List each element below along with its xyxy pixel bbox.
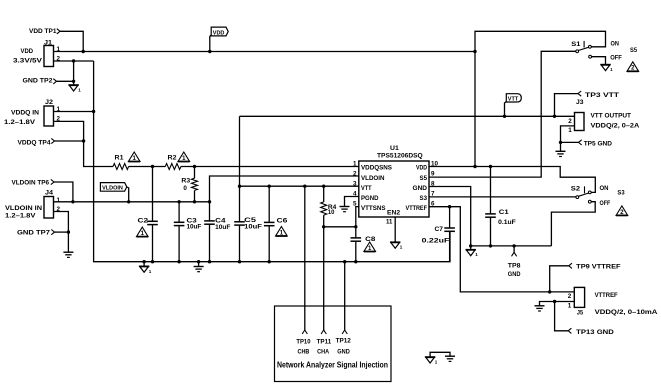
wire U1 pin5 VTTSNS bbox=[356, 207, 359, 227]
junction bus ground bbox=[142, 260, 145, 263]
junction TP13 bbox=[553, 300, 556, 303]
testpoint TP9 arrow bbox=[569, 263, 572, 268]
testpoint TP2 arrow bbox=[53, 79, 56, 84]
wire GND rail and bottom bus bbox=[94, 61, 450, 262]
wire EN2 pin 11 stub bbox=[394, 217, 396, 242]
svg-text:R3: R3 bbox=[181, 177, 190, 184]
ground bus triangle bbox=[139, 266, 152, 274]
svg-text:10: 10 bbox=[328, 209, 335, 216]
warning triangle R1 bbox=[128, 152, 140, 162]
wire C2 bottom lead bbox=[152, 225, 154, 262]
junction R4/VTT line bbox=[322, 185, 325, 188]
wire bus earth stub bbox=[198, 262, 200, 267]
junction C3/VLDOIN bbox=[177, 200, 180, 203]
wire C3 top lead bbox=[178, 202, 180, 223]
wire TP1 to VDD rail bbox=[60, 31, 83, 51]
svg-text:VTTREF: VTTREF bbox=[406, 205, 428, 212]
warning triangle S3 bbox=[616, 206, 628, 216]
junction pin6/C7 bbox=[448, 205, 451, 208]
wire TP9 bbox=[550, 266, 569, 292]
svg-text:TP11: TP11 bbox=[317, 339, 332, 346]
junction C5/VTT bbox=[238, 185, 241, 188]
junction TP3/VTT rail bbox=[553, 115, 556, 118]
svg-text:0: 0 bbox=[183, 185, 187, 192]
svg-text:VDDQSNS: VDDQSNS bbox=[361, 165, 392, 172]
junction TP12/bus bbox=[343, 260, 346, 263]
wire C5 top lead bbox=[239, 186, 241, 222]
svg-text:TP3 VTT: TP3 VTT bbox=[585, 92, 620, 99]
testpoint TP6 arrow bbox=[51, 179, 54, 184]
svg-text:GND TP7: GND TP7 bbox=[17, 229, 51, 236]
svg-text:Network Analyzer Signal Inject: Network Analyzer Signal Injection bbox=[277, 361, 388, 370]
junction TP10/VTT line bbox=[303, 185, 306, 188]
capacitor C2 bbox=[147, 221, 158, 224]
wire TP11 drop CHA bbox=[323, 227, 325, 330]
capacitor C5 bbox=[234, 222, 245, 225]
wire TP3 bbox=[555, 94, 579, 117]
testpoint TP13 arrow bbox=[568, 328, 571, 333]
svg-text:CHA: CHA bbox=[317, 348, 329, 355]
svg-text:C7: C7 bbox=[435, 226, 444, 233]
wire U1 pin10 VDD to S2 ON bbox=[429, 167, 595, 193]
svg-text:VDDQ IN: VDDQ IN bbox=[11, 110, 39, 117]
junction VLDOIN flag bbox=[127, 200, 130, 203]
svg-text:S3: S3 bbox=[420, 195, 428, 202]
svg-text:VTTREF: VTTREF bbox=[595, 292, 618, 299]
testpoint TP4 arrow bbox=[51, 138, 54, 143]
svg-text:C6: C6 bbox=[277, 218, 289, 225]
net label VTT bbox=[506, 94, 521, 103]
wire TP13 bbox=[555, 302, 569, 331]
wire VLDOIN J4.1 bbox=[54, 201, 210, 203]
svg-text:TP13 GND: TP13 GND bbox=[576, 329, 614, 336]
switch S1 OFF contact bbox=[589, 55, 592, 58]
wire TP2 bbox=[57, 80, 74, 82]
ground bus earth bbox=[194, 267, 204, 272]
warning triangle C2 bbox=[137, 227, 149, 237]
wire S1 actuator bbox=[583, 41, 585, 48]
svg-text:VDD: VDD bbox=[416, 165, 427, 172]
svg-text:J5: J5 bbox=[577, 310, 584, 317]
junction VTTSNS/C8 bbox=[354, 225, 357, 228]
svg-text:PGND: PGND bbox=[361, 195, 379, 202]
switch S1 pole contact bbox=[576, 50, 579, 53]
svg-text:J4: J4 bbox=[45, 190, 54, 197]
wire U1 pin8 GND drop bbox=[429, 187, 471, 246]
wire VTT riser bbox=[239, 116, 241, 186]
wire R3 bottom lead bbox=[194, 190, 196, 201]
svg-text:TP10: TP10 bbox=[296, 339, 310, 346]
svg-text:VDDQ/2, 0–2A: VDDQ/2, 0–2A bbox=[591, 123, 640, 130]
svg-text:2: 2 bbox=[353, 171, 357, 178]
wire TP4 bbox=[55, 140, 84, 142]
wire S2 actuator bbox=[584, 186, 586, 193]
net label VLDOIN bbox=[100, 183, 126, 192]
wire J4.2 to TP7 ground bbox=[54, 212, 69, 253]
wire TP7 bbox=[55, 231, 69, 233]
wire C2 top lead bbox=[152, 167, 154, 222]
junction C3/bus bbox=[177, 260, 180, 263]
wire C7 bottom lead bbox=[449, 231, 451, 261]
wire J1.2 to GND rail bbox=[54, 60, 94, 62]
wire S1 pole to U1 pin9 S5 bbox=[429, 51, 576, 177]
junction pin8/right bus bbox=[469, 244, 472, 247]
svg-text:VDDQ/2, 0–10mA: VDDQ/2, 0–10mA bbox=[595, 309, 658, 316]
testpoint TP11 arrow bbox=[321, 330, 326, 334]
svg-text:0.22uF: 0.22uF bbox=[422, 237, 450, 244]
wire TP8 stub bbox=[513, 246, 515, 252]
IC U1 TPS51206DSQ body bbox=[359, 161, 429, 217]
network analyzer box bbox=[275, 306, 392, 382]
wire J2.2 VDDQ rail bbox=[54, 121, 114, 166]
svg-text:VTTSNS: VTTSNS bbox=[361, 205, 386, 212]
connector J2 bbox=[44, 106, 54, 126]
svg-text:S2: S2 bbox=[571, 186, 581, 193]
ground tie earth bbox=[445, 356, 455, 361]
svg-text:S5: S5 bbox=[420, 175, 428, 182]
svg-text:0.1uF: 0.1uF bbox=[498, 219, 516, 226]
junction R3/VLDOIN bbox=[193, 200, 196, 203]
svg-text:10uF: 10uF bbox=[187, 224, 202, 231]
wire C3 bottom lead bbox=[178, 226, 180, 262]
wire VTTSNS link bbox=[324, 226, 356, 228]
wire C4 top lead bbox=[209, 202, 211, 221]
wire VDD rail J1.1 bbox=[54, 51, 476, 53]
testpoint TP10 arrow bbox=[302, 330, 307, 334]
capacitor C6 bbox=[264, 222, 275, 225]
wire TP2 drop bbox=[73, 61, 75, 85]
wire U1 pin4 PGND bbox=[345, 197, 359, 207]
testpoint TP8 arrow bbox=[512, 252, 517, 256]
wire C8 bottom lead bbox=[355, 241, 357, 262]
ground TP2 bbox=[68, 85, 81, 93]
wire U1 pin6 VTTREF rail bbox=[429, 207, 574, 292]
wire C5 bottom lead bbox=[239, 225, 241, 262]
svg-text:S3: S3 bbox=[617, 190, 625, 197]
connector J1 bbox=[44, 46, 54, 67]
wire VDD flag stub bbox=[210, 35, 211, 52]
svg-text:TPS51206DSQ: TPS51206DSQ bbox=[377, 153, 423, 160]
svg-text:EN2: EN2 bbox=[387, 210, 401, 217]
svg-text:C1: C1 bbox=[499, 209, 509, 216]
junction TP5 bbox=[559, 141, 562, 144]
wire VTT rail bbox=[240, 115, 575, 117]
wire C4 bottom lead bbox=[209, 224, 211, 262]
svg-text:1.2–1.8V: 1.2–1.8V bbox=[4, 119, 36, 126]
junction C6/VTT bbox=[268, 185, 271, 188]
wire VLDOIN riser to U1 pin2 bbox=[210, 176, 359, 202]
ground S1 OFF bbox=[600, 65, 613, 73]
junction TP8 bbox=[512, 244, 515, 247]
svg-text:TP5 GND: TP5 GND bbox=[584, 141, 612, 148]
svg-text:3: 3 bbox=[353, 181, 357, 188]
testpoint TP1 arrow bbox=[57, 29, 60, 34]
svg-text:VLDOIN: VLDOIN bbox=[361, 175, 385, 182]
junction R1/R2/C2 bbox=[151, 165, 154, 168]
svg-text:2: 2 bbox=[568, 118, 572, 125]
wire C1 top lead bbox=[490, 167, 492, 214]
svg-text:VDDQ TP4: VDDQ TP4 bbox=[18, 140, 52, 147]
junction C4/bus bbox=[208, 260, 211, 263]
junction bus earth bbox=[197, 260, 200, 263]
switch S1 arm bbox=[578, 47, 588, 50]
svg-text:J2: J2 bbox=[45, 99, 54, 106]
ground J3 earth bbox=[556, 151, 566, 156]
capacitor C4 bbox=[204, 221, 215, 224]
svg-text:10uF: 10uF bbox=[244, 223, 262, 230]
svg-text:OFF: OFF bbox=[600, 200, 611, 207]
svg-text:GND: GND bbox=[508, 271, 521, 278]
wire right bus ground stub bbox=[470, 246, 472, 250]
ground J5 earth bbox=[535, 306, 545, 311]
wire J3.1 to ground bbox=[561, 126, 575, 151]
svg-text:TP9 VTTREF: TP9 VTTREF bbox=[576, 263, 620, 270]
capacitor C8 bbox=[351, 238, 362, 241]
wire VTT flag stub bbox=[505, 102, 507, 117]
wire R4 top lead bbox=[323, 186, 325, 202]
svg-text:VDD TP1: VDD TP1 bbox=[29, 28, 57, 35]
warning triangle C8 bbox=[364, 242, 376, 252]
wire TP12 drop GND bbox=[344, 262, 346, 330]
svg-text:1: 1 bbox=[57, 197, 61, 204]
svg-text:VLDOIN: VLDOIN bbox=[102, 186, 123, 192]
wire VTT line to U1 pin3 bbox=[240, 185, 359, 187]
svg-text:VLDOIN TP6: VLDOIN TP6 bbox=[12, 179, 50, 186]
junction R4/TP11 bbox=[322, 225, 325, 228]
switch S1 ON contact bbox=[589, 45, 592, 48]
wire C6 top lead bbox=[268, 186, 270, 222]
svg-text:J3: J3 bbox=[576, 99, 584, 106]
svg-text:1: 1 bbox=[568, 303, 572, 310]
switch S2 ON contact bbox=[588, 191, 591, 194]
capacitor C1 bbox=[485, 214, 496, 217]
resistor R4 bbox=[321, 202, 327, 215]
capacitor C7 bbox=[444, 228, 455, 231]
svg-text:GND: GND bbox=[413, 185, 428, 192]
junction pin10/VDD riser bbox=[473, 165, 476, 168]
warning triangle S5 bbox=[627, 62, 639, 72]
junction TP1/VDD rail bbox=[82, 50, 85, 53]
svg-text:TP12: TP12 bbox=[336, 338, 351, 345]
wire S2 OFF to right bus bbox=[551, 202, 595, 246]
junction TP7 bbox=[67, 230, 70, 233]
wire TP6 bbox=[54, 182, 73, 202]
svg-text:VTT: VTT bbox=[361, 185, 372, 192]
resistor R1 bbox=[113, 164, 129, 170]
svg-text:3.3V/5V: 3.3V/5V bbox=[13, 58, 43, 65]
warning triangle R2 bbox=[178, 152, 190, 162]
junction VDD rail/S1 riser bbox=[473, 50, 476, 53]
ground EN2 bbox=[390, 242, 403, 250]
wire R2 to U1 pin1 VDDQSNS bbox=[181, 166, 359, 168]
junction VTT flag bbox=[503, 115, 506, 118]
junction TP2 bbox=[72, 80, 75, 83]
junction VDD flag bbox=[208, 50, 211, 53]
wire VLDOIN flag stub bbox=[127, 187, 129, 202]
resistor R2 bbox=[165, 164, 181, 170]
svg-text:R1: R1 bbox=[115, 155, 125, 162]
ground tie triangle bbox=[425, 357, 438, 365]
junction J2.1/GND rail bbox=[92, 110, 95, 113]
svg-text:TP8: TP8 bbox=[508, 262, 521, 269]
junction C6/bus bbox=[268, 260, 271, 263]
svg-text:2: 2 bbox=[568, 293, 572, 300]
svg-text:C8: C8 bbox=[365, 236, 376, 243]
wire S1 ON loop to VDD bbox=[475, 31, 606, 166]
switch S2 pole contact bbox=[576, 196, 579, 199]
connector J5 bbox=[574, 287, 584, 307]
junction R2/R3 bbox=[193, 165, 196, 168]
svg-text:ON: ON bbox=[600, 185, 609, 192]
svg-text:VLDOIN IN: VLDOIN IN bbox=[5, 205, 43, 212]
svg-text:CHB: CHB bbox=[298, 348, 310, 355]
ground TP7 earth bbox=[63, 252, 73, 257]
svg-text:R2: R2 bbox=[168, 155, 178, 162]
wire C7 top lead bbox=[449, 207, 451, 228]
wire bus ground stub bbox=[143, 262, 145, 267]
junction pin10/C1 bbox=[489, 165, 492, 168]
svg-text:U1: U1 bbox=[390, 145, 399, 152]
junction C2/bus bbox=[151, 260, 154, 263]
junction TP9/VTTREF rail bbox=[548, 290, 551, 293]
switch S2 arm bbox=[579, 193, 589, 196]
net label VDD bbox=[211, 27, 228, 36]
testpoint TP7 arrow bbox=[51, 230, 54, 235]
resistor R3 bbox=[192, 178, 198, 190]
wire C1 bottom lead bbox=[490, 217, 492, 246]
svg-text:GND: GND bbox=[337, 348, 350, 355]
wire U1 pin7 S3 to S2 pole bbox=[429, 196, 576, 198]
junction C1/right bus bbox=[489, 244, 492, 247]
svg-text:1.2–1.8V: 1.2–1.8V bbox=[5, 213, 36, 220]
wire J2.1 bbox=[54, 111, 94, 113]
wire TP5 bbox=[561, 141, 579, 143]
svg-text:1: 1 bbox=[568, 127, 572, 134]
svg-text:VTT OUTPUT: VTT OUTPUT bbox=[591, 113, 632, 120]
connector J3 bbox=[575, 113, 585, 131]
warning triangle C6 bbox=[276, 227, 288, 237]
wire right GND bus bbox=[471, 245, 552, 247]
junction J1.2/TP2 bbox=[72, 59, 75, 62]
junction TP6/VLDOIN bbox=[71, 200, 74, 203]
svg-text:1: 1 bbox=[353, 161, 357, 168]
wire R1 to R2 bbox=[129, 166, 166, 168]
wire C8 top lead bbox=[355, 227, 357, 238]
svg-text:OFF: OFF bbox=[610, 55, 622, 62]
wire S1 OFF to ground bbox=[591, 57, 605, 65]
wire R3 top lead bbox=[194, 167, 196, 179]
svg-text:VDD: VDD bbox=[213, 30, 225, 36]
wire J5.1 to ground bbox=[540, 302, 575, 306]
switch S2 OFF contact bbox=[588, 200, 591, 203]
junction C5/bus bbox=[238, 260, 241, 263]
svg-text:S5: S5 bbox=[630, 47, 637, 54]
connector J4 bbox=[44, 197, 54, 219]
wire TP10 drop CHB bbox=[304, 186, 306, 330]
testpoint TP12 arrow bbox=[342, 330, 347, 334]
wire ground tie bracket bbox=[430, 352, 450, 357]
svg-text:C2: C2 bbox=[138, 218, 149, 225]
svg-text:VTT: VTT bbox=[508, 96, 519, 102]
svg-text:10uF: 10uF bbox=[215, 224, 230, 231]
wire C6 bottom lead bbox=[268, 226, 270, 262]
svg-text:ON: ON bbox=[611, 40, 620, 47]
ground PGND bbox=[340, 207, 350, 212]
svg-text:11: 11 bbox=[386, 218, 393, 225]
junction TP4 bbox=[82, 139, 85, 142]
junction C4/VLDOIN riser bbox=[208, 200, 211, 203]
wire R4 bottom lead bbox=[323, 215, 325, 227]
testpoint TP5 arrow bbox=[579, 140, 582, 145]
svg-text:GND TP2: GND TP2 bbox=[23, 78, 54, 85]
junction C8/bus bbox=[354, 260, 357, 263]
svg-text:S1: S1 bbox=[571, 41, 581, 48]
capacitor C3 bbox=[174, 222, 185, 225]
testpoint TP3 arrow bbox=[578, 91, 581, 96]
ground right bus bbox=[466, 250, 479, 258]
svg-text:VDD: VDD bbox=[21, 48, 34, 55]
